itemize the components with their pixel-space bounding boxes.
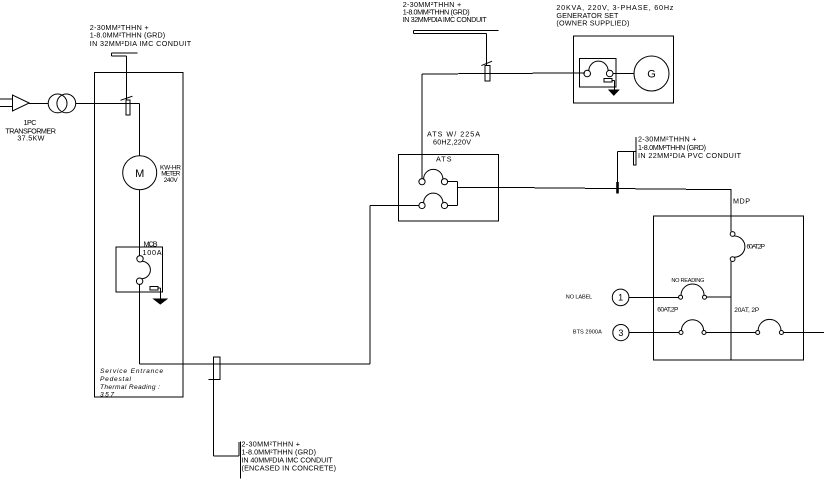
svg-text:60HZ,220V: 60HZ,220V [433,137,471,146]
svg-text:3: 3 [618,328,623,338]
wire: conduit to kw-hr meter [138,103,140,155]
label: 1PC TRANSFORMER 37.5KW [5,118,56,143]
wire: arrow to transformer [29,102,48,104]
label: KW-HR METER 240V [160,164,181,184]
main breaker 60AT,2P on bus [730,232,745,262]
generator breaker enclosure [579,59,616,88]
label: ATS W/ 225A 60HZ,220V [427,130,480,147]
svg-text:G: G [647,69,656,81]
wire: generator breaker to G [613,73,634,75]
svg-text:ATS: ATS [436,155,452,164]
wire: node 1 to branch breaker [629,296,679,298]
ATS emergency-source switch contact [419,193,448,208]
wire: generator feed down to ATS [421,74,423,179]
conduit riser symbol on MDP feeder [618,137,637,193]
service entrance pedestal enclosure [95,73,183,398]
ground symbol at generator [609,80,619,95]
branch breaker NO READING 60AT,2P [679,284,707,299]
label: MDP feeder note 2-30MM2THHN IN 22MM PVC [638,134,742,159]
wire: ATS output to MDP [458,187,731,189]
label: MDP [733,197,750,206]
label: generator feeder note 2-30MM2THHN IN 32MM IMC [403,0,488,24]
svg-text:(OWNER SUPPLIED): (OWNER SUPPLIED) [556,19,629,28]
wire: riser up to ATS [370,206,419,365]
svg-text:1: 1 [618,293,623,303]
svg-text:IN 32MM²DIA IMC CONDUIT: IN 32MM²DIA IMC CONDUIT [403,15,488,24]
svg-text:Service Entrance: Service Entrance [100,368,163,375]
label: BTS 2900A [573,330,602,336]
kw-hr meter M [123,156,157,190]
wire: conduit down drop [214,380,241,479]
svg-text:NO READING: NO READING [671,278,704,284]
neutral-ground link bar at generator [604,79,612,82]
conduit riser symbol on underground run [208,357,219,380]
label: MCB 100A [143,240,162,258]
svg-text:IN 32MM²DIA IMC CONDUIT: IN 32MM²DIA IMC CONDUIT [90,39,192,48]
MDP panel enclosure [653,216,803,360]
node 1: NO LABEL circuit [612,289,629,306]
svg-text:(ENCASED IN CONCRETE): (ENCASED IN CONCRETE) [242,464,337,473]
generator set enclosure [573,36,673,103]
svg-text:240V: 240V [164,177,179,184]
svg-text:20AT, 2P: 20AT, 2P [734,307,759,314]
conduit riser symbol at meter feed [112,53,138,115]
svg-text:100A: 100A [143,248,162,257]
label: NO LABEL [566,294,593,300]
wire: MCB down to pedestal exit [139,284,141,364]
svg-text:Pedestal: Pedestal [100,376,132,383]
wire: feeder drop into MDP [730,189,732,216]
circuit breaker at generator [584,61,613,77]
wire: bus to outgoing breaker [731,332,756,334]
ATS enclosure [398,155,498,222]
ATS normal-source switch contact [419,169,448,184]
outgoing breaker 20AT, 2P [756,319,784,334]
wire: outgoing feeder to right edge [783,332,824,334]
neutral-ground link bar in MCB [150,286,158,290]
label: NO READING [671,278,704,284]
label: feeder note 2-30MM2THHN IN 40MM IMC ENCASED [242,440,337,473]
label: Service Entrance Pedestal Thermal Reading 357 [100,368,163,399]
svg-text:60AT,2P: 60AT,2P [747,244,766,251]
wire: node 3 to branch breaker [629,332,679,334]
svg-text:37.5KW: 37.5KW [17,134,44,143]
conduit riser symbol on generator feed [413,31,498,81]
svg-text:IN 22MM²DIA PVC CONDUIT: IN 22MM²DIA PVC CONDUIT [638,151,742,160]
node 3: BTS 2900A circuit [613,325,629,341]
svg-text:NO LABEL: NO LABEL [566,294,593,300]
svg-text:Thermal Reading :: Thermal Reading : [100,384,160,391]
label: 20KVA 220V 3-PHASE 60Hz GENERATOR SET (OWNER SUPPLIED) [556,3,673,28]
generator G [634,56,669,91]
transformer T1 (1PC 37.5KW) [48,94,76,113]
label: 60AT,2P (main) [747,244,766,251]
service entrance arrow head [13,95,30,111]
label: ATS [436,155,452,164]
wire: branch breaker 1 to bus [707,296,732,298]
svg-text:357: 357 [100,392,114,399]
node: utility service drop double line [0,99,12,107]
label: 60AT,2P (branch 1) [657,307,678,314]
svg-text:BTS 2900A: BTS 2900A [573,330,602,336]
svg-text:M: M [135,168,144,180]
ground symbol at MCB [154,288,167,304]
label: 20AT, 2P [734,307,759,314]
wire: pedestal to ATS riser (horizontal run) [140,363,370,365]
svg-text:MDP: MDP [733,197,750,206]
label: feeder note 2-30MM2THHN IN 32MM IMC [90,23,192,48]
circuit breaker MCB 100A [136,256,150,285]
wire: meter to MCB [139,190,141,256]
wire: generator to ATS junction [422,73,585,74]
MCB enclosure [116,247,163,292]
svg-text:MCB: MCB [144,240,158,249]
wire: ATS common link [448,182,458,206]
node: MDP main bus [730,216,732,360]
wire: transformer to service pedestal [76,102,140,104]
svg-text:60AT,2P: 60AT,2P [657,307,678,314]
branch breaker 3 [679,320,706,335]
wire: branch breaker 3 to bus [706,332,731,334]
